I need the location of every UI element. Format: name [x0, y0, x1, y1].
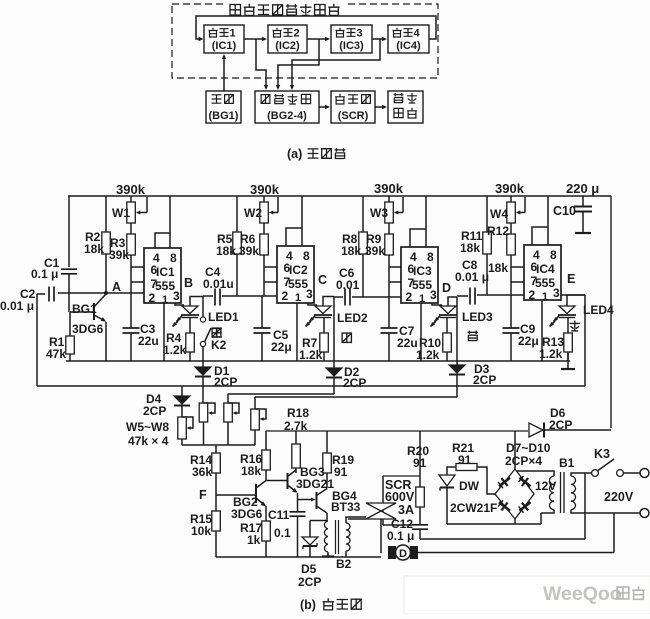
svg-text:18k: 18k — [488, 261, 508, 275]
wire wiper common — [182, 444, 255, 446]
svg-text:(IC1): (IC1) — [212, 40, 237, 52]
wire pin1 ground IC3 — [420, 303, 422, 361]
wire drop stage2-3 to phase control — [278, 39, 319, 86]
bottom ground bus — [216, 556, 381, 558]
svg-text:36k: 36k — [192, 465, 212, 479]
svg-text:LED2: LED2 — [337, 311, 368, 325]
diode D4 2CP — [181, 386, 183, 396]
svg-text:8: 8 — [303, 249, 310, 263]
resistor R11 18k — [486, 196, 488, 232]
svg-text:2CW21F: 2CW21F — [450, 501, 497, 515]
svg-text:0.1: 0.1 — [274, 526, 291, 540]
resistor R9 — [388, 223, 390, 234]
svg-text:D5: D5 — [301, 562, 317, 576]
potentiometer W4 — [510, 196, 512, 202]
capacitor C8 0.01u coupling — [457, 295, 468, 297]
resistor R10 1.2k — [446, 318, 448, 334]
capacitor C6 0.01 coupling — [334, 296, 343, 298]
op-amp timer IC1 7555 — [144, 248, 181, 303]
svg-text:2CP: 2CP — [549, 418, 572, 432]
svg-text:18k: 18k — [241, 464, 261, 478]
svg-text:(IC3): (IC3) — [339, 40, 364, 52]
fan motor M — [388, 546, 396, 559]
resistor R6 — [263, 223, 265, 234]
wire pin6 stub IC1 — [131, 266, 144, 268]
svg-text:0.01 μ: 0.01 μ — [0, 299, 34, 313]
wire output node stage 1 — [190, 297, 203, 307]
op-amp timer IC3 7555 — [401, 247, 438, 303]
transformer B1 secondary 12V — [516, 471, 554, 476]
svg-text:390k: 390k — [250, 182, 280, 197]
resistor R1 47k — [69, 312, 71, 336]
svg-text:1: 1 — [295, 292, 301, 304]
mains terminal bottom 220V — [640, 509, 649, 518]
wire pin4 supply IC3 — [410, 229, 426, 247]
label LED4 colour — [570, 321, 580, 331]
wire motor to mains — [418, 552, 614, 554]
resistor R7 1.2k — [323, 318, 325, 334]
thyristor SCR 600V 3A — [383, 475, 420, 477]
wire arrow IC1 to IC2 — [244, 38, 264, 40]
wire pin8 supply IC4 — [547, 196, 549, 245]
svg-text:2CP: 2CP — [473, 373, 496, 387]
svg-text:1: 1 — [230, 28, 236, 40]
wire W7 feed line — [228, 393, 334, 395]
svg-text:W3: W3 — [370, 206, 388, 220]
transformer B1 primary 220V — [571, 476, 575, 484]
capacitor C2 0.01u — [37, 293, 45, 295]
transformer B1 core — [560, 472, 562, 513]
svg-text:2: 2 — [294, 28, 300, 40]
svg-text:1.2k: 1.2k — [163, 343, 187, 357]
svg-text:2CP: 2CP — [143, 404, 166, 418]
wire pin6 stub IC4 — [511, 266, 524, 268]
label LED1 colour — [212, 328, 222, 337]
feedback bus lower — [36, 294, 38, 386]
block 单稳4 (IC4) — [388, 25, 429, 53]
switch K2 — [202, 296, 204, 317]
svg-text:C11: C11 — [268, 508, 290, 522]
svg-text:3: 3 — [430, 288, 437, 302]
wire pin6 stub IC3 — [389, 266, 401, 268]
svg-text:1: 1 — [542, 291, 548, 303]
potentiometer W1 — [130, 196, 132, 202]
svg-text:1.2k: 1.2k — [539, 347, 563, 361]
svg-text:E: E — [567, 272, 575, 286]
svg-text:2CP: 2CP — [343, 376, 366, 390]
resistor R13 1.2k — [567, 318, 569, 334]
svg-text:3DG21: 3DG21 — [296, 477, 334, 491]
svg-text:IC4: IC4 — [536, 262, 555, 276]
svg-text:IC3: IC3 — [413, 264, 432, 278]
svg-text:12V: 12V — [535, 479, 556, 493]
capacitor C5 22u — [261, 296, 263, 328]
wire pin7 stub IC3 — [389, 281, 401, 283]
potentiometer W8 — [254, 397, 256, 409]
wire pin7 stub IC1 — [131, 281, 144, 283]
phase control supply line — [266, 430, 528, 432]
wire arrow BG1 to IC1 — [223, 57, 225, 91]
capacitor C9 22u — [510, 295, 512, 328]
block 单稳1 (IC1) — [204, 25, 244, 53]
diode D1 2CP — [202, 347, 204, 368]
wire pin1 ground IC2 — [296, 303, 298, 361]
svg-text:1.2k: 1.2k — [299, 348, 323, 362]
wire pin6 stub IC2 — [264, 266, 277, 268]
resistor R18 2.7k — [295, 431, 297, 444]
svg-text:22μ: 22μ — [271, 340, 292, 354]
svg-text:D: D — [442, 281, 451, 295]
wire R21 to bridge — [477, 467, 495, 494]
svg-text:C10: C10 — [553, 204, 576, 218]
svg-text:(b): (b) — [300, 598, 316, 612]
wire arrow IC2 to IC3 — [307, 38, 327, 40]
capacitor C11 0.1 — [290, 511, 306, 513]
capacitor C4 0.01u coupling — [203, 295, 213, 297]
wire drop stage1-2 to phase control — [256, 39, 266, 86]
svg-text:0.01 μ: 0.01 μ — [455, 270, 489, 284]
svg-text:2: 2 — [282, 289, 289, 303]
wire arrow phase control to SCR — [319, 106, 327, 108]
resistor R15 10k — [212, 511, 221, 531]
svg-text:2: 2 — [529, 288, 536, 302]
svg-text:(BG2-4): (BG2-4) — [267, 110, 307, 122]
resistor R17 1k — [262, 521, 271, 541]
svg-text:8: 8 — [550, 248, 557, 262]
svg-text:(IC4): (IC4) — [396, 40, 421, 52]
svg-text:2CP×4: 2CP×4 — [505, 454, 542, 468]
svg-text:W2: W2 — [244, 206, 262, 220]
svg-text:0.1 μ: 0.1 μ — [31, 267, 58, 281]
block 电扇电机 fan motor — [388, 91, 423, 123]
svg-text:220V: 220V — [604, 490, 634, 504]
resistor R20 91 — [419, 431, 421, 487]
wire W3 chain down to pins 6,7 — [388, 255, 390, 297]
svg-text:2: 2 — [406, 290, 413, 304]
svg-text:W4: W4 — [490, 207, 508, 221]
svg-text:8: 8 — [427, 250, 434, 264]
LED2 LED — [308, 303, 317, 305]
top supply rail 390k line — [68, 195, 611, 197]
svg-text:39k: 39k — [239, 244, 259, 258]
potentiometer W3 — [388, 196, 390, 202]
svg-text:0.1 μ: 0.1 μ — [387, 529, 414, 543]
svg-text:47k: 47k — [46, 347, 66, 361]
wire bridge DC+ to supply line — [514, 431, 516, 469]
label LED1 red 红 — [212, 328, 221, 337]
LED3 LED — [432, 303, 442, 305]
watermark WeeQoo — [404, 576, 650, 614]
svg-text:3: 3 — [553, 286, 560, 300]
wire W1 chain down to pins 6,7 — [130, 255, 132, 293]
svg-text:390k: 390k — [495, 181, 525, 196]
capacitor C10 220u — [582, 196, 584, 206]
resistor R14 36k — [215, 445, 217, 453]
svg-text:BT33: BT33 — [331, 500, 361, 514]
svg-text:B2: B2 — [336, 557, 352, 571]
svg-text:C: C — [318, 273, 327, 287]
svg-text:(BG1): (BG1) — [209, 110, 239, 122]
svg-text:3DG6: 3DG6 — [231, 507, 263, 521]
potentiometer W5 — [178, 417, 187, 439]
svg-text:R18: R18 — [287, 406, 309, 420]
svg-text:47k × 4: 47k × 4 — [128, 434, 169, 448]
block 可控硅 (SCR) — [331, 91, 375, 123]
switch K3 — [592, 470, 599, 477]
transistor BG4 BT33 unijunction — [298, 499, 313, 501]
svg-text:600V: 600V — [385, 490, 415, 504]
svg-text:18k: 18k — [341, 244, 361, 258]
svg-text:WeeQoo: WeeQoo — [543, 583, 622, 605]
svg-text:IC1: IC1 — [156, 265, 175, 279]
wire pin1 ground IC1 — [163, 303, 165, 361]
label LED2 colour — [342, 333, 351, 342]
wire output node stage 4 — [567, 295, 585, 306]
svg-text:3A: 3A — [398, 503, 414, 517]
svg-text:2CP: 2CP — [214, 375, 237, 389]
terminator R13 bus end — [567, 352, 569, 369]
svg-text:220 μ: 220 μ — [566, 181, 599, 196]
diode D6 2CP — [529, 423, 543, 437]
wire pin7 stub IC2 — [264, 281, 277, 283]
wire pin8 supply IC1 — [169, 196, 171, 248]
feedback loop wire IC4 output to IC1 input — [196, 16, 436, 39]
LED4 LED — [561, 294, 585, 296]
svg-text:390k: 390k — [374, 181, 404, 196]
wire W4 chain down to pins 6,7 — [510, 255, 512, 295]
svg-text:3DG6: 3DG6 — [72, 322, 104, 336]
capacitor C12 0.1u — [412, 524, 428, 526]
svg-text:10k: 10k — [191, 524, 211, 538]
wire E branch to feedback bus — [584, 295, 586, 386]
svg-text:K3: K3 — [594, 447, 610, 461]
zener diode DW 2CW21F — [447, 467, 456, 475]
LED1 LED — [175, 303, 184, 305]
potentiometer W2 — [263, 196, 265, 202]
resistor R21 91 — [456, 464, 477, 471]
diode D3 2CP — [456, 297, 458, 365]
resistor R12 — [510, 223, 512, 234]
wire pin4 supply IC2 — [286, 228, 302, 246]
svg-text:91: 91 — [413, 456, 427, 470]
resistor R4 1.2k — [189, 318, 191, 334]
capacitor C7 22u — [388, 297, 390, 328]
svg-text:B: B — [184, 276, 193, 290]
svg-text:4: 4 — [414, 28, 421, 40]
wire pin8 supply IC3 — [425, 196, 427, 247]
potentiometer W7 — [227, 394, 229, 403]
wire pin7 stub IC4 — [511, 281, 524, 283]
svg-text:D: D — [399, 548, 407, 560]
wire arrow SCR to motor — [375, 106, 384, 108]
svg-text:390k: 390k — [116, 182, 146, 197]
svg-text:A: A — [112, 280, 121, 294]
wire drop stage3-4 to phase control — [292, 39, 380, 86]
resistor R3 — [130, 223, 132, 234]
svg-text:(a): (a) — [287, 147, 302, 161]
resistor R5 18k — [236, 196, 238, 232]
wire pin1 ground IC4 — [541, 300, 543, 361]
bridge rectifier D7~D10 2CP x4 — [495, 469, 534, 519]
svg-text:R12: R12 — [487, 224, 509, 238]
wire W8 feed line — [255, 396, 457, 398]
svg-text:2: 2 — [149, 291, 156, 305]
svg-text:0.01: 0.01 — [336, 278, 360, 292]
op-amp timer IC2 7555 — [277, 246, 314, 303]
svg-text:W5~W8: W5~W8 — [126, 420, 169, 434]
svg-text:0.01u: 0.01u — [203, 277, 234, 291]
svg-text:18k: 18k — [84, 242, 104, 256]
svg-text:DW: DW — [459, 479, 480, 493]
block diagram dashed frame 多级循环定时电路 — [172, 4, 438, 78]
svg-text:BG1: BG1 — [72, 302, 97, 316]
potentiometer W6 — [202, 402, 204, 403]
pulse transformer B2 — [326, 519, 328, 521]
svg-text:18k: 18k — [460, 241, 480, 255]
wire W2 chain down to pins 6,7 — [263, 255, 265, 296]
svg-text:39k: 39k — [109, 248, 129, 262]
wire output node stage 3 — [448, 297, 457, 306]
svg-text:IC2: IC2 — [289, 263, 308, 277]
svg-text:91: 91 — [458, 453, 472, 467]
svg-text:22μ: 22μ — [518, 334, 539, 348]
wire pin4 supply IC4 — [532, 227, 548, 245]
right supply vertical to D6 line — [610, 196, 612, 428]
block 单稳2 (IC2) — [268, 25, 307, 53]
svg-text:22u: 22u — [138, 334, 159, 348]
resistor R19 91 — [326, 431, 328, 453]
svg-text:91: 91 — [334, 465, 348, 479]
wire pin4 supply IC1 — [155, 233, 170, 248]
svg-text:39k: 39k — [365, 244, 385, 258]
svg-text:8: 8 — [170, 251, 177, 265]
resistor R16 18k — [265, 431, 267, 450]
wire C12 to mains — [420, 538, 585, 540]
wire F to BG2 base — [216, 494, 256, 496]
title 多级循环定时电路 — [230, 5, 241, 16]
op-amp timer IC4 7555 — [524, 245, 561, 300]
svg-text:2.7k: 2.7k — [284, 419, 308, 433]
label LED3 colour — [468, 331, 478, 341]
resistor R8 18k — [362, 196, 364, 232]
block 启动 (BG1) — [206, 91, 241, 123]
svg-text:18k: 18k — [216, 244, 236, 258]
svg-text:F: F — [199, 488, 207, 502]
wire BG3 base — [266, 480, 288, 482]
block 移相控制 (BG2-4) — [255, 91, 319, 123]
resistor R2 18k — [105, 196, 107, 232]
diode D2 2CP — [333, 297, 335, 368]
svg-text:1.2k: 1.2k — [416, 348, 440, 362]
svg-text:(IC2): (IC2) — [275, 40, 300, 52]
svg-text:LED4: LED4 — [583, 303, 614, 317]
svg-text:1: 1 — [419, 293, 425, 305]
capacitor C3 22u — [130, 293, 132, 328]
svg-text:1: 1 — [162, 294, 168, 306]
svg-text:D7~D10: D7~D10 — [506, 441, 551, 455]
wire pin8 supply IC2 — [301, 196, 303, 246]
svg-text:3: 3 — [357, 28, 363, 40]
block 单稳3 (IC3) — [331, 25, 372, 53]
svg-text:W1: W1 — [112, 206, 130, 220]
transistor BG3 3DG21 — [287, 473, 289, 489]
svg-text:1k: 1k — [247, 533, 261, 547]
wire output node stage 2 — [323, 297, 334, 307]
mains terminal top 220V — [640, 469, 649, 478]
diode D5 2CP — [310, 520, 327, 522]
svg-text:LED1: LED1 — [208, 310, 239, 324]
transistor BG2 3DG6 — [255, 484, 257, 503]
capacitor C1 0.1u — [68, 196, 70, 267]
svg-text:22u: 22u — [397, 336, 418, 350]
svg-text:LED3: LED3 — [462, 310, 493, 324]
wire bridge bottom — [514, 519, 516, 524]
transistor BG1 3DG6 — [93, 303, 95, 320]
svg-text:2CP: 2CP — [298, 575, 321, 589]
svg-text:3: 3 — [306, 287, 313, 301]
wire zener bottom line — [447, 523, 541, 525]
ground bus upper — [66, 360, 570, 362]
wire arrow IC3 to IC4 — [372, 38, 384, 40]
svg-text:(SCR): (SCR) — [338, 110, 369, 122]
svg-text:B1: B1 — [559, 456, 575, 470]
svg-text:3: 3 — [173, 289, 180, 303]
svg-text:K2: K2 — [211, 338, 227, 352]
